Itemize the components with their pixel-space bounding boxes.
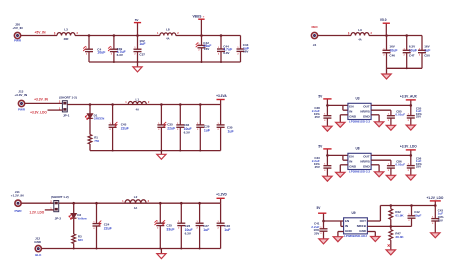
svg-text:6.3V: 6.3V — [184, 131, 191, 135]
bottom rail row2 — [90, 150, 221, 152]
svg-text:1uF: 1uF — [424, 49, 430, 53]
svg-text:6.3V: 6.3V — [185, 232, 192, 236]
svg-text:Yellow: Yellow — [77, 216, 87, 220]
svg-text:4A: 4A — [166, 37, 169, 41]
capacitor C29 — [196, 105, 210, 151]
junction at C47 — [405, 34, 408, 37]
capacitor C44 — [217, 36, 232, 63]
junction U3 output — [410, 104, 413, 107]
svg-text:OUT: OUT — [360, 219, 367, 223]
svg-text:PWR: PWR — [18, 108, 26, 112]
wire L3 to L8 — [75, 35, 160, 37]
svg-text:LP38693SD-ADJ: LP38693SD-ADJ — [344, 234, 367, 238]
inductor L2 — [122, 195, 150, 210]
svg-text:OUT: OUT — [363, 155, 370, 159]
capacitor C28 — [217, 203, 231, 248]
EN-IN tie of U8 — [342, 155, 344, 160]
ground U9 left — [333, 237, 342, 242]
capacitor C30 — [217, 105, 234, 151]
junction output C43 — [434, 204, 437, 207]
svg-text:GND: GND — [363, 164, 371, 168]
svg-text:NR/FB: NR/FB — [360, 110, 370, 114]
IN stub of U9 — [341, 225, 344, 227]
svg-text:4A: 4A — [136, 107, 139, 111]
wire +3.3V_LDO stub — [48, 109, 63, 111]
junction at C45 — [111, 103, 114, 106]
GND right drop U3 — [378, 115, 380, 122]
svg-text:GND: GND — [349, 164, 357, 168]
svg-text:6.3V: 6.3V — [117, 53, 124, 57]
bottom junction C27 — [199, 248, 201, 250]
svg-text:GND: GND — [345, 229, 353, 233]
junction U8 input cap — [326, 154, 329, 157]
capacitor C38 — [312, 105, 332, 126]
svg-text:EN: EN — [345, 219, 349, 223]
power flag 5V — [134, 18, 141, 36]
junction VBUS at C42 — [200, 34, 203, 37]
power flag +3.3VA — [216, 94, 227, 104]
wire D2 to R3 — [73, 219, 75, 234]
svg-text:61.9K: 61.9K — [395, 213, 404, 217]
svg-text:+3.3V_LDO: +3.3V_LDO — [400, 144, 417, 148]
NR wire U3 — [371, 109, 391, 111]
junction at C25 — [159, 202, 162, 205]
ground U3 right — [374, 122, 383, 127]
junction at C39 — [113, 34, 116, 37]
capacitor C45 — [109, 105, 129, 151]
inductor L9 — [348, 28, 372, 41]
capacitor C27 — [196, 203, 210, 248]
junction at C24 — [95, 202, 98, 205]
power flag 5V (U3 input) — [318, 94, 331, 105]
capacitor C47 — [403, 36, 417, 69]
wire 1.2V_LDO stub — [45, 209, 54, 211]
wire J4 to L9 — [318, 35, 351, 37]
capacitor C42 — [196, 36, 212, 63]
svg-text:38.3K: 38.3K — [395, 235, 404, 239]
bottom rail row3 — [42, 248, 221, 250]
svg-text:25V: 25V — [314, 232, 319, 236]
svg-text:L9: L9 — [358, 28, 362, 32]
svg-text:L3: L3 — [64, 27, 68, 31]
svg-text:6.3V: 6.3V — [223, 51, 230, 55]
svg-text:0.01uF: 0.01uF — [395, 163, 405, 167]
capacitor C39 — [108, 36, 125, 63]
jumper header JP1 — [62, 101, 67, 112]
power flag VBUS — [192, 15, 204, 36]
mid rail U9 FB — [391, 225, 412, 227]
junction U3 input cap — [326, 104, 329, 107]
svg-text:+3.3V_AUX: +3.3V_AUX — [400, 94, 418, 98]
junction at D1 chain — [89, 103, 92, 106]
svg-text:1uF: 1uF — [224, 228, 230, 232]
ground U9 input cap — [319, 239, 328, 244]
bottom junction C35/gnd — [160, 150, 162, 152]
bottom junction C25/gnd — [159, 248, 161, 250]
svg-text:10uF: 10uF — [97, 51, 105, 55]
svg-text:L8: L8 — [166, 27, 170, 31]
svg-text:JP-2: JP-2 — [55, 217, 62, 221]
ground U8 output cap — [406, 175, 415, 180]
op-amp regulator U3 — [348, 97, 371, 124]
capacitor C4 — [83, 36, 105, 63]
svg-text:+3.3V_IN: +3.3V_IN — [14, 93, 27, 97]
power flag +3.3V_AUX — [400, 94, 418, 105]
GND right stub U9 — [367, 231, 375, 233]
net-tie mark under R47 — [388, 244, 390, 246]
ground U3 input cap — [323, 126, 332, 131]
connector J11 (+1.2V_IN jack) — [15, 200, 21, 206]
svg-text:U8: U8 — [355, 147, 359, 151]
ground U3 NR cap — [386, 125, 395, 130]
OUT wire U3 — [371, 104, 411, 106]
svg-text:BLK: BLK — [35, 253, 42, 257]
capacitor C46 — [383, 36, 398, 69]
capacitor C43 (1uF out) — [431, 206, 444, 233]
wire D1 to R1 — [89, 119, 91, 135]
junction node 5V0 at C4 — [88, 34, 91, 37]
svg-text:10pF: 10pF — [414, 213, 421, 217]
svg-text:22uF: 22uF — [167, 127, 175, 131]
ground stub V5.0 — [386, 68, 388, 74]
GND left stub U3 — [340, 114, 348, 116]
ground V5.0 — [382, 74, 391, 79]
EN-IN tie of U9 — [340, 221, 342, 226]
junction R42 top — [390, 204, 393, 207]
op-amp regulator U9 — [344, 211, 368, 238]
svg-text:EN: EN — [349, 105, 353, 109]
svg-text:IN: IN — [345, 224, 348, 228]
capacitor C41 — [311, 221, 327, 239]
svg-text:C50: C50 — [424, 53, 430, 57]
input wire to U3 — [327, 104, 348, 106]
connector J20 (+5V_IN jack) — [14, 32, 20, 38]
connector J4 — [311, 32, 317, 38]
svg-text:0.01uF: 0.01uF — [395, 113, 405, 117]
svg-text:PWR: PWR — [15, 209, 23, 213]
svg-text:GND: GND — [363, 114, 371, 118]
svg-text:+1.2V_IN: +1.2V_IN — [11, 193, 24, 197]
GND right stub U8 — [371, 164, 379, 166]
svg-text:+5V_IN: +5V_IN — [34, 30, 46, 34]
junction at C35 — [160, 103, 163, 106]
bottom junction C29 — [199, 150, 201, 152]
rail +1.2VD row3 — [59, 202, 221, 204]
ground U3 output cap — [406, 125, 415, 130]
wire J20 to L3 — [21, 35, 57, 37]
svg-text:25V: 25V — [315, 165, 320, 169]
svg-text:(SHORT 1-2): (SHORT 1-2) — [51, 195, 69, 199]
svg-text:(SHORT 1-2): (SHORT 1-2) — [59, 95, 77, 99]
junction U9 input cap — [322, 220, 325, 223]
junction at C26 — [180, 202, 183, 205]
capacitor C42 (10pF) — [408, 206, 422, 227]
power flag 5V (U8 input) — [318, 144, 331, 155]
svg-text:EN: EN — [349, 155, 353, 159]
capacitor C25 — [155, 203, 175, 248]
svg-text:+5V_IN: +5V_IN — [12, 26, 22, 30]
svg-text:33uF: 33uF — [166, 228, 174, 232]
svg-text:10uF: 10uF — [389, 49, 397, 53]
NR wire U8 — [371, 159, 391, 161]
junction U8 output — [410, 154, 413, 157]
svg-text:1uF: 1uF — [139, 42, 145, 46]
jumper header JP2 — [54, 201, 59, 212]
wire to LED D1 — [89, 105, 91, 114]
svg-text:LP38691SD-3.3: LP38691SD-3.3 — [349, 120, 370, 124]
svg-text:25V: 25V — [438, 219, 443, 223]
wire R1 to rail — [89, 144, 91, 151]
power flag +3.3V_LDO — [400, 144, 417, 155]
svg-text:1uF: 1uF — [204, 128, 210, 132]
input wire to U8 — [327, 154, 348, 156]
bottom rail V5.0 — [387, 67, 423, 69]
ground stub row1 — [137, 62, 139, 67]
inductor L3 — [54, 27, 78, 41]
svg-text:GND: GND — [359, 229, 367, 233]
wire L9 to node V5.0 — [369, 35, 387, 37]
svg-text:L1: L1 — [136, 97, 140, 101]
junction at C44 — [220, 34, 223, 37]
bottom rail row1 — [89, 61, 241, 63]
inductor L1 — [125, 97, 150, 111]
IN stub of U3 — [343, 109, 348, 111]
svg-text:NR/FB: NR/FB — [360, 160, 370, 164]
rail V5.0 caps — [387, 35, 423, 37]
svg-text:820: 820 — [78, 238, 83, 242]
bottom junction C47r — [406, 67, 408, 69]
svg-text:25V: 25V — [416, 115, 421, 119]
bottom junction C36 — [179, 150, 181, 152]
junction C42 top — [410, 204, 413, 207]
svg-text:C35: C35 — [167, 122, 173, 126]
wire R3 to rail — [73, 244, 75, 249]
power flag +1.2VD — [216, 193, 227, 204]
svg-text:22uF: 22uF — [121, 127, 129, 131]
svg-text:750: 750 — [94, 139, 99, 143]
capacitor C35 — [157, 105, 175, 151]
ground stub row3 — [160, 249, 162, 254]
IN stub of U8 — [343, 159, 348, 161]
bottom junction C39 — [113, 61, 115, 63]
junction V5.0 — [385, 34, 388, 37]
GND left drop U3 — [339, 115, 341, 123]
ground row1 — [133, 67, 142, 72]
capacitor C50 — [418, 36, 431, 69]
svg-text:25V: 25V — [416, 165, 421, 169]
inductor L8 — [157, 27, 179, 40]
OUT wire U8 — [371, 154, 411, 156]
svg-text:+3.3V_LDO: +3.3V_LDO — [30, 111, 47, 115]
svg-text:J4: J4 — [313, 43, 317, 47]
bottom junction C26 — [180, 248, 182, 250]
rail +3.3VA row2 — [67, 104, 220, 106]
svg-text:1uF: 1uF — [228, 129, 234, 133]
LED D2 — [69, 213, 88, 220]
ground row2 — [157, 154, 166, 159]
svg-text:C46: C46 — [389, 53, 395, 57]
bottom junction C37/gnd — [137, 61, 139, 63]
svg-text:4A: 4A — [358, 37, 361, 41]
GND left stub U8 — [340, 164, 348, 166]
power flag +1.2V_LDO — [426, 196, 443, 205]
svg-text:+3.3V_IN: +3.3V_IN — [34, 97, 48, 101]
ground U3 left — [336, 122, 345, 127]
ground row3 — [157, 254, 166, 259]
junction at D2 chain — [72, 202, 75, 205]
capacitor C86 — [387, 160, 405, 176]
svg-text:OUT: OUT — [363, 105, 370, 109]
ground R47 — [386, 250, 395, 255]
LED D1 — [85, 113, 104, 120]
svg-text:1.2V_LDO: 1.2V_LDO — [29, 211, 44, 215]
svg-text:LP38691SD-3.3: LP38691SD-3.3 — [349, 170, 370, 174]
resistor R3 — [72, 234, 83, 244]
capacitor C43 — [237, 36, 250, 63]
capacitor C37 — [134, 36, 146, 63]
svg-text:U3: U3 — [355, 97, 359, 101]
svg-text:22uF: 22uF — [104, 227, 112, 231]
bottom junction D2 chain — [73, 248, 75, 250]
svg-text:GND: GND — [34, 240, 42, 244]
GND left drop U9 — [337, 232, 339, 237]
svg-text:+1.2VD: +1.2VD — [216, 193, 227, 197]
ground stub row2 — [160, 151, 162, 155]
svg-text:GREEN: GREEN — [94, 117, 105, 121]
svg-text:V5.0: V5.0 — [380, 18, 387, 22]
bottom junction C44 — [220, 61, 222, 63]
svg-text:C47: C47 — [409, 53, 415, 57]
connector J12 (GND jack) — [35, 246, 41, 252]
GND right drop U9 — [374, 232, 376, 237]
bottom junction C45 — [112, 150, 114, 152]
capacitor C36 — [176, 105, 191, 151]
EN-IN tie of U3 — [342, 105, 344, 110]
capacitor C56 — [407, 155, 422, 175]
GND right stub U3 — [371, 114, 379, 116]
GND right drop U8 — [378, 165, 380, 172]
svg-text:30R: 30R — [64, 37, 69, 41]
ground U8 right — [374, 172, 383, 177]
connector J13 (+3.3V_IN jack) — [18, 100, 24, 106]
OUT riser U9 — [379, 206, 381, 222]
svg-text:L2: L2 — [134, 195, 138, 199]
junction FB node — [390, 225, 393, 228]
junction at C27 — [198, 202, 201, 205]
wire J11 to JP2 — [21, 202, 53, 204]
junction at C29 — [199, 103, 202, 106]
op-amp regulator U8 — [348, 147, 371, 174]
top rail U9 output — [380, 205, 435, 207]
GND left drop U8 — [339, 165, 341, 173]
ground U8 input cap — [323, 176, 332, 181]
svg-text:U9: U9 — [351, 211, 355, 215]
svg-text:+1.2V_LDO: +1.2V_LDO — [426, 196, 443, 200]
svg-text:NR/FB: NR/FB — [357, 224, 367, 228]
power flag V5.0 — [380, 18, 390, 36]
junction at C36 — [179, 103, 182, 106]
power flag 5V (U9 input) — [316, 206, 326, 221]
GND left stub U9 — [338, 231, 344, 233]
ground U8 NR cap — [386, 175, 395, 180]
svg-text:JP-1: JP-1 — [63, 114, 70, 118]
input wire to U9 — [324, 220, 344, 222]
capacitor C85 — [387, 110, 405, 126]
svg-text:25V: 25V — [315, 115, 320, 119]
junction at C37 / 5V flag — [136, 34, 139, 37]
svg-text:C45: C45 — [121, 122, 127, 126]
resistor R1 — [88, 135, 99, 145]
svg-text:C37: C37 — [139, 53, 145, 57]
ground U9 right — [371, 237, 380, 242]
wire to LED D2 — [73, 203, 75, 213]
svg-text:4A: 4A — [134, 206, 137, 210]
svg-text:GND: GND — [349, 114, 357, 118]
capacitor C55 — [407, 105, 422, 125]
bottom junction C24 — [96, 248, 98, 250]
svg-text:IN: IN — [349, 110, 352, 114]
svg-text:1uF: 1uF — [203, 228, 209, 232]
svg-text:IN: IN — [349, 160, 352, 164]
NR wire U9 — [367, 225, 390, 227]
svg-text:PWR: PWR — [14, 39, 22, 43]
bottom junction C42 — [201, 61, 203, 63]
capacitor C33 — [312, 155, 332, 176]
svg-text:RED: RED — [311, 25, 317, 29]
capacitor C24 — [93, 203, 112, 248]
svg-text:VBUS: VBUS — [192, 15, 201, 19]
ground output C43 — [431, 233, 440, 238]
OUT wire U9 — [367, 220, 380, 222]
capacitor C26 — [177, 203, 192, 248]
svg-text:+3.3VA: +3.3VA — [216, 94, 227, 98]
wire L8 to C43 — [176, 35, 241, 37]
ground U8 left — [336, 172, 345, 177]
resistor R47 — [389, 226, 405, 250]
resistor R42 — [389, 206, 405, 227]
wire J13 to JP1 — [25, 102, 62, 104]
svg-text:10uF: 10uF — [409, 49, 417, 53]
